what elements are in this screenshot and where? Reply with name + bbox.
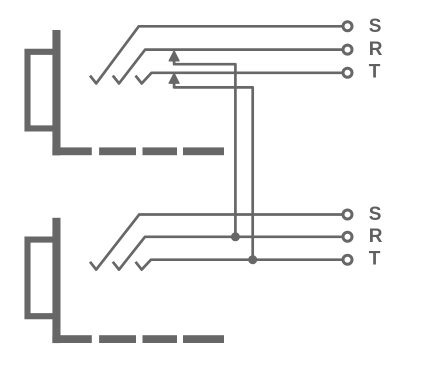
- terminal T (top): [343, 68, 352, 77]
- svg-text:S: S: [369, 16, 382, 37]
- svg-text:S: S: [369, 204, 382, 225]
- jack J1 sleeve bar: [52, 30, 60, 155]
- jack J2 chassis wire solid segment: [52, 335, 91, 343]
- wire from R switch arrow down to J2 ring line: [174, 60, 235, 237]
- terminal R (bottom): [343, 232, 352, 241]
- jack J2 chassis dash 3: [183, 335, 224, 343]
- terminal S (top): [343, 22, 352, 31]
- jack J1 chassis wire solid segment: [52, 147, 91, 155]
- jack J2 sleeve bar: [52, 218, 60, 343]
- switch arrow on T line (J1 tip normally-closed contact): [169, 74, 179, 84]
- wire J1 tip contact to terminal T: [136, 73, 343, 84]
- svg-text:T: T: [369, 248, 381, 269]
- jack J1 bushing rectangle: [28, 52, 58, 129]
- wire J1 ring contact to terminal R: [113, 50, 342, 84]
- terminal T (bottom): [343, 255, 352, 264]
- wire J1 sleeve contact to terminal S: [90, 26, 342, 83]
- jack J1 chassis dash 1: [99, 147, 136, 155]
- wire J2 ring contact to terminal R: [113, 237, 342, 270]
- svg-text:T: T: [369, 61, 381, 82]
- junction dot on J2 ring line: [231, 232, 240, 241]
- jack J2 chassis dash 2: [143, 335, 178, 343]
- svg-text:R: R: [369, 226, 383, 247]
- svg-text:R: R: [369, 39, 383, 60]
- jack J2 bushing rectangle: [28, 240, 58, 317]
- wire J2 sleeve contact to terminal S: [90, 215, 342, 270]
- junction dot on J2 tip line: [248, 255, 257, 264]
- wire J2 tip contact to terminal T: [136, 260, 343, 270]
- terminal R (top): [343, 45, 352, 54]
- terminal S (bottom): [343, 210, 352, 219]
- jack J1 chassis dash 2: [143, 147, 178, 155]
- jack J1 chassis dash 3: [183, 147, 224, 155]
- switch arrow on R line (J1 ring normally-closed contact): [169, 51, 179, 61]
- jack J2 chassis dash 1: [99, 335, 136, 343]
- wire from T switch arrow down to J2 tip line: [174, 82, 253, 260]
